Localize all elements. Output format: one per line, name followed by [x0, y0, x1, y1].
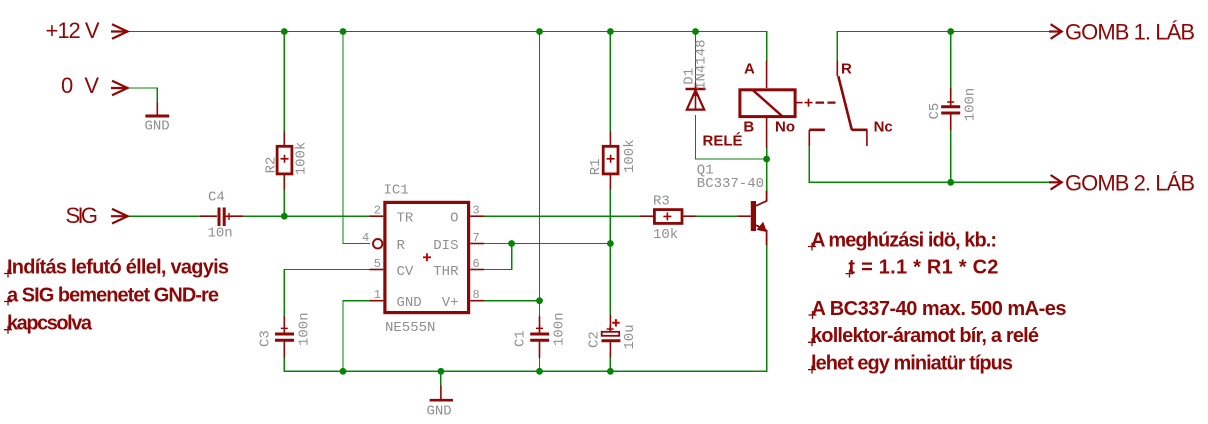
junction GOMB2/C5	[947, 179, 954, 186]
svg-text:kapcsolva: kapcsolva	[7, 313, 93, 335]
svg-text:O: O	[450, 211, 458, 227]
svg-text:R3: R3	[653, 193, 670, 209]
wire C2 bottom to rail	[609, 358, 611, 372]
junction +12V/V+ column	[536, 28, 543, 35]
wire coil B to node	[766, 148, 768, 159]
svg-text:R: R	[841, 61, 852, 78]
svg-text:C1: C1	[512, 330, 528, 347]
capacitor C2 polarized	[602, 315, 621, 358]
svg-text:C3: C3	[257, 330, 273, 347]
wire 0V to GND symbol	[128, 88, 158, 103]
svg-text:100k: 100k	[622, 139, 638, 173]
junction R2/TR	[281, 213, 288, 220]
svg-text:100n: 100n	[296, 312, 312, 346]
svg-text:NE555N: NE555N	[385, 320, 435, 336]
junction rail/pin1	[340, 368, 347, 375]
wire coil A from rail	[766, 32, 768, 61]
supply GND bottom symbol	[430, 386, 453, 401]
svg-text:IC1: IC1	[384, 183, 409, 199]
junction rail/C2	[607, 368, 614, 375]
svg-text:No: No	[775, 119, 795, 136]
svg-text:THR: THR	[433, 264, 459, 280]
wire V+ column	[539, 32, 541, 317]
svg-text:1: 1	[374, 288, 381, 302]
svg-text:BC337-40: BC337-40	[697, 176, 764, 192]
wire V+ pin to column	[484, 300, 540, 302]
wire C5 bottom	[950, 130, 952, 182]
svg-text:10k: 10k	[653, 227, 678, 243]
switch contact Nc	[852, 130, 868, 146]
capacitor C3	[275, 316, 294, 358]
svg-text:4: 4	[362, 231, 369, 245]
svg-text:5: 5	[374, 257, 381, 271]
wire D1 bottom to node	[696, 116, 767, 160]
junction D1/coil B/collector node	[763, 156, 770, 163]
svg-text:C4: C4	[208, 190, 225, 206]
svg-text:C2: C2	[586, 331, 602, 348]
output arrow GOMB2	[1049, 175, 1062, 190]
relay coil RELÉ	[740, 61, 803, 148]
wire GND symbol stub	[440, 371, 442, 385]
junction +12V/R1	[607, 28, 614, 35]
wire SIG net	[128, 215, 200, 217]
svg-text:6: 6	[473, 257, 480, 271]
wire O to R3	[484, 215, 640, 217]
junction rail/C1	[536, 368, 543, 375]
wire No contact to GOMB2	[809, 146, 1049, 182]
svg-text:100k: 100k	[294, 142, 310, 176]
wire R2 column	[283, 32, 285, 217]
svg-text:kollektor-áramot bír, a relé: kollektor-áramot bír, a relé	[811, 325, 1039, 347]
svg-text:a SIG bemenetet GND-re: a SIG bemenetet GND-re	[7, 284, 219, 306]
svg-text:t = 1.1 * R1 * C2: t = 1.1 * R1 * C2	[848, 256, 998, 278]
wire R1 column top	[609, 32, 611, 132]
svg-text:7: 7	[473, 231, 480, 245]
diode D1	[686, 83, 706, 110]
svg-text:lehet egy miniatür típus: lehet egy miniatür típus	[811, 352, 1013, 374]
transistor Q1 BC337-40	[738, 191, 767, 246]
svg-text:8: 8	[473, 288, 480, 302]
wire C1 bottom to rail	[539, 358, 541, 372]
svg-text:A: A	[744, 61, 755, 78]
junction DIS/R1	[607, 240, 614, 247]
svg-text:Nc: Nc	[874, 119, 893, 136]
svg-text:Indítás lefutó éllel, vagyis: Indítás lefutó éllel, vagyis	[7, 256, 229, 278]
svg-text:0 V: 0 V	[61, 73, 99, 98]
junction GOMB1/C5	[947, 28, 954, 35]
wire R3 to Q1 base	[697, 215, 738, 217]
svg-text:2: 2	[374, 204, 381, 218]
wire CV to C3	[284, 270, 369, 317]
svg-text:GND: GND	[397, 295, 422, 311]
svg-text:GND: GND	[427, 403, 452, 419]
wire THR jog to DIS	[484, 244, 512, 270]
svg-text:GND: GND	[145, 118, 170, 134]
junction V+/C1	[536, 297, 543, 304]
svg-text:GOMB 1. LÁB: GOMB 1. LÁB	[1065, 20, 1195, 45]
svg-text:RELÉ: RELÉ	[703, 132, 743, 149]
svg-text:10u: 10u	[622, 324, 638, 349]
input arrow SIG	[111, 209, 128, 224]
wire DIS to R1 column	[484, 243, 610, 245]
wire switch R to GOMB1	[837, 32, 1049, 61]
IC1 NE555N box	[370, 202, 485, 312]
svg-text:C5: C5	[927, 103, 943, 120]
wire emitter to rail	[766, 245, 768, 371]
svg-text:10n: 10n	[208, 226, 233, 242]
capacitor C4	[200, 208, 243, 227]
output arrow GOMB1	[1049, 24, 1062, 39]
switch contact R arm	[837, 61, 852, 130]
wire reset column +12V to pin R	[343, 32, 370, 244]
supply GND top-left symbol	[145, 103, 169, 116]
svg-text:B: B	[743, 119, 754, 136]
wire C4 to TR	[243, 215, 370, 217]
wire pin1 GND to rail	[343, 301, 370, 372]
junction rail/GND	[438, 368, 445, 375]
svg-text:R2: R2	[263, 157, 279, 174]
resistor R2	[277, 132, 292, 190]
svg-text:CV: CV	[397, 264, 414, 280]
svg-text:+12 V: +12 V	[46, 18, 100, 43]
svg-text:SIG: SIG	[66, 203, 99, 228]
capacitor C1	[530, 316, 549, 358]
wire C3 bottom to rail	[283, 358, 285, 372]
wire +12V top rail	[128, 31, 767, 33]
junction +12V/R2	[281, 28, 288, 35]
svg-text:A BC337-40 max. 500 mA-es: A BC337-40 max. 500 mA-es	[812, 298, 1067, 320]
svg-text:100n: 100n	[551, 312, 567, 346]
junction THR/DIS	[508, 240, 515, 247]
dashed actuator link	[805, 99, 836, 107]
svg-text:A meghúzási idö, kb.:: A meghúzási idö, kb.:	[811, 229, 997, 251]
svg-text:3: 3	[473, 204, 480, 218]
wire D1 top	[695, 32, 697, 84]
wire bottom ground rail	[284, 370, 766, 372]
resistor R1	[603, 132, 618, 190]
svg-text:DIS: DIS	[433, 238, 458, 254]
junction +12V/reset column	[340, 28, 347, 35]
svg-text:1N4148: 1N4148	[694, 39, 710, 89]
junction +12V/D1	[692, 28, 699, 35]
input arrow +12V	[111, 24, 128, 39]
input arrow 0V	[111, 81, 128, 96]
text origin crosses	[4, 243, 854, 374]
svg-text:TR: TR	[397, 211, 414, 227]
switch contact No	[809, 130, 825, 146]
capacitor C5	[941, 88, 960, 131]
svg-text:V+: V+	[442, 295, 459, 311]
svg-text:R: R	[397, 238, 406, 254]
wire R1 bottom to DIS row and C2	[609, 190, 611, 316]
resistor R3	[640, 210, 697, 224]
wire collector to node	[766, 159, 768, 191]
svg-text:R1: R1	[588, 158, 604, 175]
wire C5 top	[950, 32, 952, 88]
svg-text:100n: 100n	[962, 88, 978, 122]
svg-text:GOMB 2. LÁB: GOMB 2. LÁB	[1065, 170, 1195, 195]
